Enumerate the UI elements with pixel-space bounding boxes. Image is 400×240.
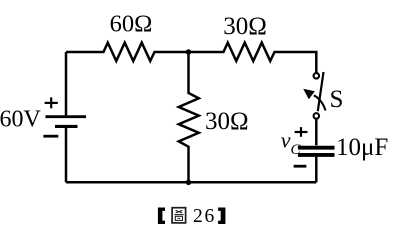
svg-text:S: S [330, 86, 344, 113]
svg-text:60V: 60V [0, 107, 42, 133]
svg-text:60Ω: 60Ω [110, 11, 153, 38]
svg-text:v: v [281, 128, 291, 153]
svg-text:30Ω: 30Ω [223, 13, 267, 40]
svg-text:C: C [291, 142, 302, 158]
svg-text:26: 26 [193, 206, 216, 227]
svg-text:10μF: 10μF [336, 134, 388, 161]
svg-text:30Ω: 30Ω [205, 108, 249, 135]
